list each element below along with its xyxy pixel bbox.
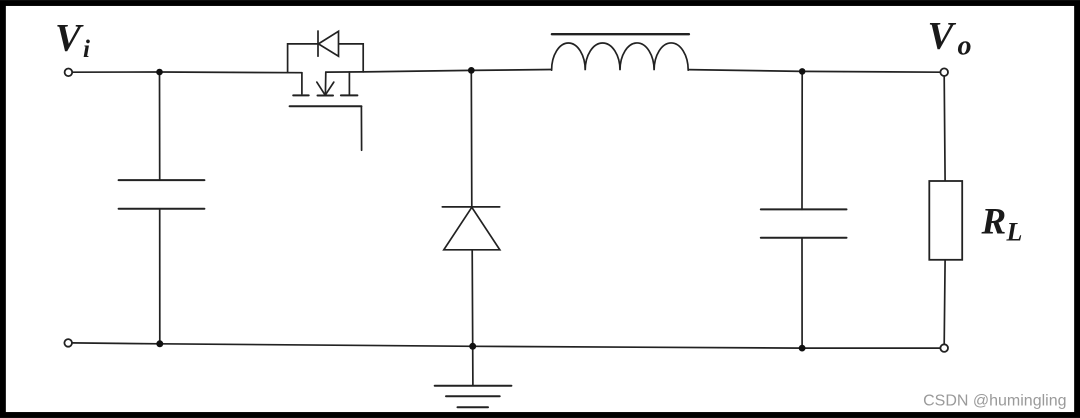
svg-text:i: i xyxy=(83,36,90,63)
diode D1 lead top xyxy=(470,70,473,207)
diode D1 triangle xyxy=(444,207,500,250)
capacitor C2 lead top xyxy=(801,71,803,209)
inductor L1 winding xyxy=(552,43,689,70)
transistor Q1 source stub xyxy=(348,72,350,95)
capacitor C1 plates xyxy=(119,180,205,209)
inductor L1 core bar xyxy=(552,33,689,35)
capacitor C2 plates xyxy=(761,209,847,237)
ground lead xyxy=(472,346,474,385)
terminal Vo top xyxy=(940,68,948,76)
svg-text:R: R xyxy=(981,202,1007,243)
transistor Q1 drain bar xyxy=(293,94,309,96)
diode D1 cathode bar xyxy=(442,206,499,208)
ground bars xyxy=(435,386,512,408)
transistor Q1 drain stub xyxy=(301,73,303,94)
transistor Q1 body-diode triangle xyxy=(318,31,338,56)
terminal Vi top xyxy=(65,69,73,77)
transistor Q1 body bar xyxy=(318,95,334,97)
capacitor C2 lead bottom xyxy=(801,238,803,348)
transistor Q1 body arrow xyxy=(324,72,326,95)
transistor Q1 source bar xyxy=(341,94,358,96)
svg-text:V: V xyxy=(928,15,957,58)
junction bottom-left xyxy=(156,340,163,347)
wire top input xyxy=(72,71,160,73)
terminal bottom-left xyxy=(64,339,72,347)
capacitor C1 lead top xyxy=(159,72,161,180)
transistor Q1 body-diode cathode bar xyxy=(317,31,319,56)
wire input to mosfet drain xyxy=(160,71,302,74)
junction top-middle xyxy=(468,67,475,74)
svg-text:CSDN @humingling: CSDN @humingling xyxy=(923,393,1066,410)
svg-text:L: L xyxy=(1006,218,1023,247)
terminal bottom-right xyxy=(940,344,948,352)
junction top-right xyxy=(799,68,806,75)
diode D1 lead bottom xyxy=(471,250,474,346)
resistor RL lead bottom xyxy=(943,260,946,345)
transistor Q1 gate line xyxy=(290,105,362,107)
junction top-left xyxy=(156,69,163,76)
junction bottom-middle xyxy=(469,343,476,350)
capacitor C1 lead bottom xyxy=(159,209,161,344)
transistor Q1 body-diode loop xyxy=(288,44,318,73)
resistor RL lead top xyxy=(943,76,946,181)
wire bottom rail xyxy=(72,343,941,348)
wire mosfet source to inductor xyxy=(326,70,552,73)
resistor RL body xyxy=(929,181,962,260)
svg-text:o: o xyxy=(958,31,972,62)
junction bottom-right xyxy=(799,345,806,352)
wire inductor to output terminal xyxy=(688,70,940,73)
svg-text:V: V xyxy=(55,17,84,60)
transistor Q1 gate lead xyxy=(360,106,362,150)
